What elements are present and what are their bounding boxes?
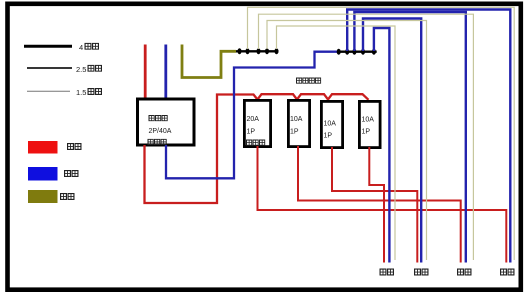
wire ground branch to 主卧 [267, 21, 427, 261]
legend line 2.5平方 [27, 65, 101, 74]
svg-text:1P: 1P [324, 133, 333, 140]
legend swatch 火线 live [28, 141, 81, 154]
svg-text:10A: 10A [290, 116, 303, 123]
breaker box1 20A 1P 带漏保 [244, 100, 270, 146]
wire neutral branch to 客厅 [354, 12, 465, 263]
neutral bus bar [337, 49, 377, 55]
svg-text:1.5: 1.5 [76, 88, 86, 97]
wire live supply L [144, 45, 147, 99]
svg-text:1P: 1P [247, 129, 256, 136]
svg-text:10A: 10A [362, 117, 375, 124]
legend swatch 零线 neutral [28, 167, 78, 181]
ground bus bar [236, 48, 279, 54]
wire neutral branch to 客卧 [374, 28, 390, 263]
legend line 1.5平方 [27, 88, 101, 97]
wire neutral branch to 主卧 [363, 19, 421, 263]
wire ground branch to 客卧 [277, 26, 396, 260]
label 空气开关 [297, 78, 321, 83]
wire live branch to 主卧 [332, 147, 417, 263]
wire neutral branch to 厨卫 [347, 10, 510, 263]
wire ground branch to 客厅 [259, 14, 474, 260]
svg-text:1P: 1P [290, 129, 299, 136]
wire live branch to 客厅 [298, 146, 461, 263]
wire ground branch to 厨卫 [248, 7, 515, 260]
wire neutral supply N [164, 45, 167, 99]
room label 厨卫 [501, 269, 514, 275]
room label 主卧 [415, 269, 428, 275]
breaker box2 10A 1P [288, 100, 309, 146]
wire neutral main-out [166, 52, 337, 179]
svg-text:2.5: 2.5 [76, 65, 86, 74]
wire live branch to 厨卫 [258, 146, 507, 263]
main breaker 总开关 2P/40A 带漏保 [138, 99, 195, 145]
wire live branch to 客卧 [369, 147, 384, 263]
breaker box3 10A 1P [321, 101, 342, 147]
room label 客卧 [380, 269, 393, 275]
room label 客厅 [458, 269, 471, 275]
svg-text:2P/40A: 2P/40A [149, 128, 172, 135]
legend swatch 接地 ground [28, 190, 74, 203]
wire ground supply PE [182, 45, 236, 78]
svg-text:4: 4 [79, 43, 83, 52]
breaker box4 10A 1P [359, 101, 380, 147]
svg-text:10A: 10A [324, 121, 337, 128]
svg-text:1P: 1P [362, 129, 371, 136]
legend line 4平方 [24, 43, 98, 52]
wire live main-out bus [145, 94, 369, 203]
svg-text:20A: 20A [247, 116, 260, 123]
